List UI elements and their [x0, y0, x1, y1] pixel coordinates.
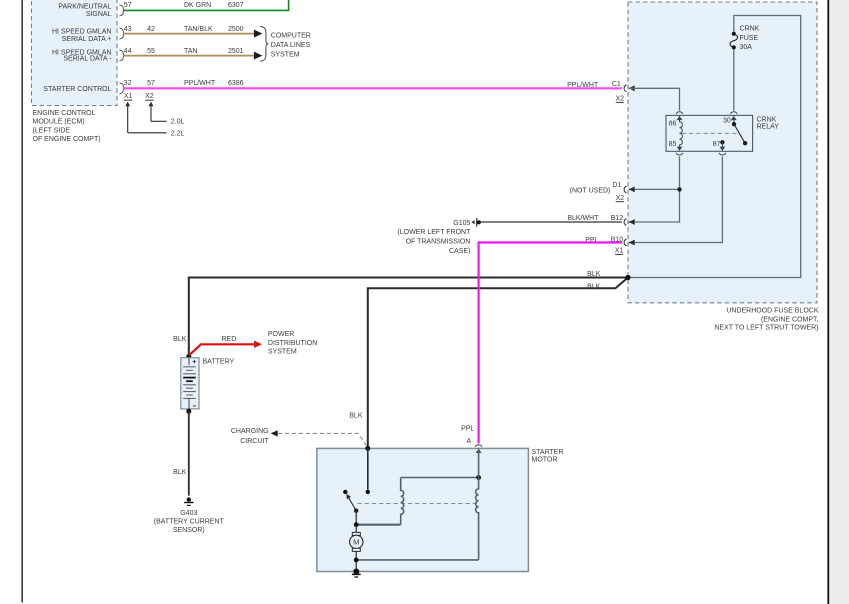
pin number 57 row1	[124, 2, 132, 9]
pin 86 label	[669, 121, 677, 128]
wire stub to D1	[629, 188, 680, 190]
svg-text:NEXT TO LEFT STRUT TOWER): NEXT TO LEFT STRUT TOWER)	[714, 325, 818, 332]
label BLK upper	[587, 271, 601, 278]
relay K1 CRNK RELAY box	[666, 115, 753, 151]
label POWER DISTRIBUTION SYSTEM	[268, 331, 317, 356]
ECM connector brace pin 44	[119, 50, 124, 61]
value label DK GRN	[184, 2, 211, 9]
junction node on pin 85 wire	[677, 187, 681, 191]
svg-text:42: 42	[147, 26, 155, 33]
terminal B12 arrow	[629, 219, 635, 225]
battery B1	[181, 358, 199, 409]
svg-text:D1: D1	[612, 182, 621, 189]
starter solenoid switch blade	[349, 498, 357, 511]
svg-text:57: 57	[147, 80, 155, 87]
svg-text:57: 57	[124, 2, 132, 9]
ECM block (engine control module)	[32, 0, 118, 106]
svg-text:(LEFT SIDE: (LEFT SIDE	[33, 127, 71, 134]
relay contact 87	[720, 140, 724, 144]
svg-text:86: 86	[669, 121, 677, 128]
svg-text:CRNK: CRNK	[757, 117, 777, 124]
ECM pin label HI SPEED GMLAN SERIAL DATA +	[52, 29, 112, 43]
arrowhead charging circuit	[271, 430, 278, 436]
ground G105 symbol	[471, 218, 481, 227]
svg-text:STARTER CONTROL: STARTER CONTROL	[43, 86, 111, 93]
wire PPL from B10 to starter terminal A	[479, 243, 622, 444]
node at motor top	[354, 522, 359, 527]
label RED	[222, 336, 237, 343]
pin 85 label	[669, 141, 677, 148]
svg-text:ENGINE CONTROL: ENGINE CONTROL	[33, 110, 96, 117]
label BLK at starter cable	[349, 412, 363, 419]
label BLK at ground wire	[173, 469, 187, 476]
svg-text:CIRCUIT: CIRCUIT	[240, 438, 269, 445]
svg-text:6307: 6307	[228, 2, 244, 9]
pin 30 arrow	[731, 116, 737, 120]
svg-text:CHARGING: CHARGING	[231, 428, 269, 435]
ECM caption text	[33, 110, 101, 143]
svg-text:44: 44	[124, 48, 132, 55]
svg-text:G105: G105	[453, 220, 470, 227]
svg-text:BLK: BLK	[349, 412, 363, 419]
label PPL	[585, 237, 598, 244]
label BLK/WHT	[567, 215, 599, 222]
motor M1 starter motor	[350, 525, 363, 572]
pull-in coil winding	[401, 478, 404, 525]
svg-text:B12: B12	[611, 215, 624, 222]
fuse block internal feed bus wire	[628, 16, 800, 278]
label UNDERHOOD FUSE BLOCK caption	[714, 307, 818, 331]
svg-text:X1: X1	[615, 248, 624, 255]
wire X2 branch to 2.0L	[149, 102, 167, 122]
svg-text:STARTER: STARTER	[532, 449, 564, 456]
svg-text:SYSTEM: SYSTEM	[271, 52, 300, 59]
svg-text:DISTRIBUTION: DISTRIBUTION	[268, 340, 317, 347]
svg-text:RELAY: RELAY	[757, 124, 780, 131]
circuit number 6386	[228, 80, 244, 87]
junction node at fuse block edge	[625, 275, 630, 280]
ground G403 symbol	[184, 497, 193, 505]
svg-text:TAN/BLK: TAN/BLK	[184, 26, 213, 33]
svg-text:X2: X2	[616, 96, 625, 103]
ground symbol under starter motor	[352, 574, 361, 577]
starter switch moving contact	[354, 509, 358, 513]
terminal B10 arrow	[629, 240, 635, 246]
node starter ground at box edge	[353, 569, 359, 575]
svg-text:55: 55	[147, 48, 155, 55]
svg-text:X2: X2	[145, 93, 154, 100]
wire hold-in coil to motor bottom	[356, 559, 478, 561]
label PPL at starter	[461, 425, 474, 432]
svg-text:2500: 2500	[228, 26, 244, 33]
ECM connector brace pin 57	[119, 5, 124, 16]
svg-text:FUSE: FUSE	[740, 35, 759, 42]
svg-text:43: 43	[124, 26, 132, 33]
hold-in coil winding from terminal A	[476, 449, 479, 560]
svg-text:30: 30	[723, 118, 731, 125]
battery junction node top	[186, 354, 191, 359]
starter motor block	[317, 448, 529, 571]
wire fuse to relay pin 30	[733, 47, 735, 110]
svg-text:BLK: BLK	[173, 336, 187, 343]
wire pin 85 to D1 and B12	[629, 156, 680, 222]
junction node starter cable at box edge	[365, 446, 370, 451]
svg-text:X2: X2	[616, 195, 625, 202]
relay mechanical link dashed	[682, 132, 739, 134]
terminal D1 label	[612, 182, 621, 189]
node motor bottom	[354, 558, 359, 563]
svg-text:(LOWER LEFT FRONT: (LOWER LEFT FRONT	[397, 229, 471, 236]
value label PPL/WHT	[184, 80, 216, 87]
relay coil 86-85	[680, 119, 683, 148]
label G105 location	[397, 220, 471, 255]
brace computer data lines system	[260, 26, 268, 61]
node end of battery stud	[366, 490, 370, 494]
svg-text:RED: RED	[222, 336, 237, 343]
value label TAN	[184, 48, 197, 55]
wire DK GRN 6307	[123, 0, 288, 10]
svg-text:6386: 6386	[228, 80, 244, 87]
label CRNK RELAY	[757, 117, 780, 131]
wire X1 branch to 2.2L	[125, 102, 166, 133]
svg-text:BLK: BLK	[587, 271, 601, 278]
svg-text:(BATTERY CURRENT: (BATTERY CURRENT	[154, 518, 225, 525]
terminal B12 connector arc	[624, 219, 626, 226]
pin 85 arrow	[677, 147, 683, 151]
svg-text:2.0L: 2.0L	[171, 119, 185, 126]
wire BLK battery cable to starter	[368, 278, 628, 449]
arrowhead TAN/BLK to computer data lines	[254, 30, 263, 38]
label PPL/WHT near C1	[567, 82, 599, 89]
label 2.2L	[171, 130, 185, 137]
battery junction node bottom	[186, 409, 191, 414]
circuit number 2501	[228, 48, 244, 55]
pin numbers 32 57	[124, 80, 155, 87]
svg-text:HI SPEED GMLAN: HI SPEED GMLAN	[52, 29, 112, 36]
terminal D1 connector arc	[624, 186, 626, 193]
svg-text:2.2L: 2.2L	[171, 130, 185, 137]
pin 86 arrow	[677, 116, 683, 120]
svg-text:DK GRN: DK GRN	[184, 2, 211, 9]
circuit number 2500	[228, 26, 244, 33]
node at hold-in coil top	[476, 475, 481, 480]
pin numbers 44 55	[124, 48, 155, 55]
svg-text:PPL: PPL	[461, 425, 474, 432]
terminal A label	[467, 438, 472, 445]
node X1 under ECM	[124, 93, 133, 100]
svg-text:85: 85	[669, 141, 677, 148]
label M	[353, 538, 359, 547]
svg-text:OF TRANSMISSION: OF TRANSMISSION	[406, 239, 471, 246]
pin 87 arrow	[720, 147, 726, 151]
label COMPUTER DATA LINES SYSTEM	[271, 33, 311, 59]
right off-page gray band	[829, 0, 849, 604]
ECM connector brace pin 32	[119, 83, 124, 94]
page border right	[827, 0, 829, 604]
wire BLK inside starter to switch stud	[367, 448, 369, 492]
svg-text:OF ENGINE COMPT): OF ENGINE COMPT)	[33, 136, 101, 143]
label G403 caption	[154, 510, 225, 534]
starter solenoid switch fixed contact	[343, 490, 347, 494]
svg-text:X1: X1	[124, 93, 133, 100]
wire BLK battery to ground G403	[188, 411, 190, 495]
starter mechanical link dashed	[358, 503, 479, 505]
wire pin 87 to B10	[629, 156, 723, 242]
svg-text:CRNK: CRNK	[740, 26, 760, 33]
svg-text:30A: 30A	[740, 44, 753, 51]
ECM connector brace pin 43	[119, 28, 124, 39]
wire TAN/BLK 2500	[123, 33, 255, 35]
node X2 at C1	[616, 96, 625, 103]
svg-text:2501: 2501	[228, 48, 244, 55]
terminal B10 connector arc	[624, 239, 626, 246]
terminal A connector arc	[475, 445, 482, 447]
wire switch to motor node	[355, 511, 357, 525]
svg-text:(ENGINE COMPT,: (ENGINE COMPT,	[761, 316, 819, 323]
pin 30 connector arc	[731, 112, 738, 114]
label BLK at battery wire	[173, 336, 187, 343]
terminal B12 label	[611, 215, 624, 222]
svg-text:M: M	[353, 538, 359, 547]
pin 87 stem	[721, 142, 723, 147]
pin 30 stem	[733, 118, 735, 125]
svg-text:BLK: BLK	[173, 469, 187, 476]
node X2 under ECM	[145, 93, 154, 100]
svg-text:SYSTEM: SYSTEM	[268, 349, 297, 356]
svg-text:PPL/WHT: PPL/WHT	[184, 80, 216, 87]
wire BLK battery feed from fuse block to battery	[189, 278, 628, 357]
svg-text:UNDERHOOD FUSE BLOCK: UNDERHOOD FUSE BLOCK	[726, 307, 819, 314]
label NOT USED	[570, 188, 611, 195]
svg-text:G403: G403	[180, 510, 197, 517]
label CRNK FUSE 30A	[740, 26, 760, 52]
svg-text:TAN: TAN	[184, 48, 197, 55]
terminal C1 arrow	[629, 85, 635, 91]
pin 87 connector arc	[719, 153, 726, 155]
wire TAN 2501	[123, 55, 255, 57]
arrowhead TAN to computer data lines	[254, 52, 263, 60]
svg-text:87: 87	[713, 141, 721, 148]
wire C1 to relay pin 86	[629, 88, 680, 110]
label 2.0L	[171, 119, 185, 126]
ECM pin label PARK/NEUTRAL SIGNAL	[58, 3, 111, 18]
label BATTERY	[203, 358, 235, 365]
wire RED to power distribution	[189, 344, 255, 355]
fuse F1 CRNK FUSE 30A	[730, 32, 738, 50]
label BLK lower	[587, 283, 601, 290]
starter switch blade arrowhead	[346, 494, 351, 500]
label STARTER MOTOR	[532, 449, 564, 464]
ECM pin label STARTER CONTROL	[43, 86, 111, 93]
pin numbers 43 42	[124, 26, 155, 33]
pin 87 label	[713, 141, 721, 148]
terminal D1 arrow	[629, 187, 635, 193]
pin 85 connector arc	[676, 153, 683, 155]
relay switch contact end	[743, 141, 747, 145]
svg-text:A: A	[467, 438, 472, 445]
label CHARGING CIRCUIT	[231, 428, 269, 445]
wire dashed to charging circuit	[278, 433, 368, 447]
svg-text:BLK/WHT: BLK/WHT	[567, 215, 599, 222]
svg-text:PPL/WHT: PPL/WHT	[567, 82, 599, 89]
node X2 at D1	[616, 195, 625, 202]
svg-text:BATTERY: BATTERY	[203, 358, 235, 365]
svg-text:POWER: POWER	[268, 331, 294, 338]
terminal A arrow	[476, 449, 482, 453]
wire coil top link	[401, 477, 479, 479]
page border left	[21, 0, 23, 603]
wire PPL/WHT 6386	[123, 87, 622, 89]
svg-text:MOTOR: MOTOR	[532, 456, 558, 463]
svg-text:C1: C1	[612, 81, 621, 88]
svg-text:CASE): CASE)	[449, 248, 470, 255]
underhood fuse block	[628, 2, 817, 303]
wire pull-in coil bottom link	[356, 524, 401, 526]
svg-text:BLK: BLK	[587, 283, 601, 290]
terminal C1 connector arc	[624, 85, 626, 92]
node X1 at B10	[615, 248, 624, 255]
wire BLK/WHT to G105	[481, 221, 622, 223]
svg-text:32: 32	[124, 80, 132, 87]
value label TAN/BLK	[184, 26, 213, 33]
svg-text:(NOT USED): (NOT USED)	[570, 188, 611, 195]
svg-text:SIGNAL: SIGNAL	[86, 11, 112, 18]
terminal B10 label	[611, 237, 624, 244]
svg-text:DATA LINES: DATA LINES	[271, 42, 311, 49]
relay switch blade	[734, 124, 745, 143]
svg-text:SERIAL DATA +: SERIAL DATA +	[62, 36, 112, 43]
ECM pin label HI SPEED GMLAN SERIAL DATA -	[52, 50, 112, 63]
circuit number 6307	[228, 2, 244, 9]
terminal C1 label	[612, 81, 621, 88]
pin 86 connector arc	[676, 112, 683, 114]
svg-text:COMPUTER: COMPUTER	[271, 33, 311, 40]
svg-text:SENSOR): SENSOR)	[173, 527, 205, 534]
relay switch contact 30	[732, 122, 736, 126]
svg-text:MODULE (ECM): MODULE (ECM)	[33, 119, 85, 126]
svg-text:SERIAL DATA -: SERIAL DATA -	[63, 56, 112, 63]
pin 30 label	[723, 118, 731, 125]
arrowhead RED power distribution	[254, 341, 262, 348]
svg-text:PARK/NEUTRAL: PARK/NEUTRAL	[58, 3, 111, 10]
